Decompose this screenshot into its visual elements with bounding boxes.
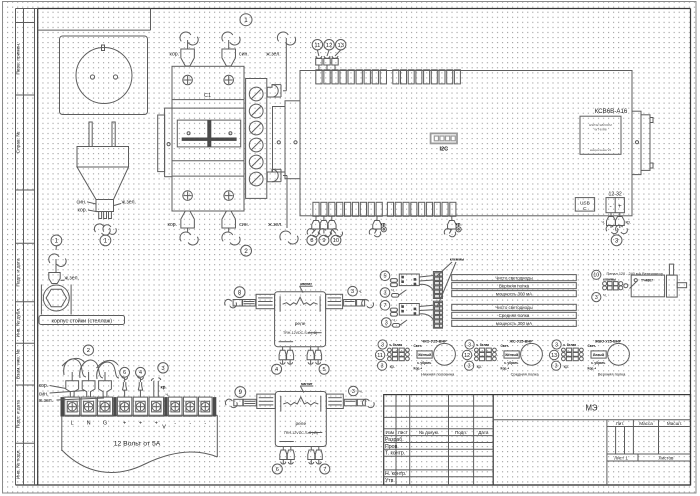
mains plugs into L N G	[66, 381, 79, 397]
svg-text:5: 5	[323, 367, 326, 373]
svg-text:12 Вольт от 5А: 12 Вольт от 5А	[114, 441, 161, 448]
block to column wires lower	[419, 305, 433, 306]
svg-text:Средняя полка: Средняя полка	[499, 313, 530, 318]
svg-text:реле: реле	[295, 422, 306, 427]
svg-text:Пров.: Пров.	[385, 444, 399, 450]
node 8	[234, 287, 245, 298]
node 3 lamp bottom	[552, 361, 561, 370]
node 10	[592, 270, 601, 279]
svg-text:ТЧ4807: ТЧ4807	[641, 278, 653, 282]
node 3 upper strip	[380, 288, 390, 298]
svg-text:6: 6	[276, 467, 279, 473]
relay TRH-12VDC body	[275, 292, 326, 347]
svg-text:3: 3	[615, 238, 619, 245]
bottom pin header group 2	[387, 202, 393, 216]
C1 strip screw 2	[249, 104, 263, 118]
svg-text:3: 3	[352, 389, 355, 395]
svg-text:ч.: ч.	[603, 292, 606, 297]
svg-text:USB: USB	[580, 200, 590, 206]
rack plug	[49, 273, 60, 284]
node 3 lamp top	[552, 340, 561, 349]
node 3 psu	[158, 363, 168, 373]
power wires to node 3	[610, 213, 612, 217]
svg-text:ч.: ч.	[359, 289, 363, 294]
svg-text:№ докум.: № докум.	[419, 430, 439, 435]
node 6 psu	[120, 367, 130, 377]
node 3	[349, 386, 359, 396]
C1 strip screw 4	[249, 138, 263, 152]
red pin wire 1	[376, 216, 378, 220]
svg-text:Жёлтый: Жёлтый	[504, 353, 518, 357]
node 5	[319, 364, 329, 374]
svg-text:ЧКО-У25-ВНР: ЧКО-У25-ВНР	[422, 340, 448, 344]
svg-text:3: 3	[161, 366, 164, 372]
C1 bottom plug син.	[222, 211, 236, 228]
C1 screw bottom-left	[183, 191, 193, 201]
node 4 psu	[136, 367, 146, 377]
svg-text:ч. белая: ч. белая	[563, 343, 576, 347]
board left bracket	[285, 101, 300, 179]
svg-text:4: 4	[275, 367, 278, 373]
top-left reference box	[38, 29, 151, 31]
wall socket	[60, 36, 148, 115]
svg-text:1: 1	[55, 238, 59, 245]
LED bar 2	[452, 312, 577, 318]
svg-text:10: 10	[593, 273, 599, 279]
fan motor	[667, 275, 678, 297]
C1 strip screw 1	[249, 87, 263, 101]
svg-text:Подп. и дата: Подп. и дата	[15, 258, 21, 287]
svg-text:кор.: кор.	[168, 222, 178, 228]
svg-text:11: 11	[314, 43, 320, 49]
power plug prong right	[112, 122, 115, 147]
C1 inner window	[177, 120, 240, 147]
controller board KCB6B-A16	[300, 71, 632, 216]
fan connector chain	[603, 282, 607, 286]
svg-text:9: 9	[322, 238, 325, 244]
relay right connector	[326, 394, 343, 408]
wires 8 9 10 from board	[315, 216, 317, 220]
wire ж.зел. up	[283, 90, 286, 92]
svg-text:кр.: кр.	[390, 364, 396, 369]
C1 strip screw 5	[249, 155, 263, 169]
svg-text:МЭ: МЭ	[585, 404, 597, 413]
wire node 6 to +	[124, 390, 126, 397]
relay left connector	[257, 394, 276, 408]
node 11	[312, 40, 322, 50]
svg-text:11: 11	[377, 353, 383, 359]
svg-text:ж.зел.: ж.зел.	[268, 222, 282, 228]
svg-text:C1: C1	[204, 93, 211, 99]
node 3 power	[611, 235, 622, 246]
cord squiggle	[94, 224, 103, 232]
node 12	[462, 350, 471, 359]
svg-text:ч.: ч.	[359, 389, 363, 394]
C1 screw top-left	[183, 75, 193, 85]
svg-text:-: -	[204, 421, 206, 427]
svg-text:-: -	[610, 203, 612, 210]
svg-text:4: 4	[139, 370, 142, 376]
svg-text:Чисто светодиоды: Чисто светодиоды	[495, 305, 532, 310]
svg-text:+: +	[618, 203, 622, 210]
svg-text:син.: син.	[77, 199, 87, 205]
svg-text:13: 13	[551, 353, 557, 359]
node 6	[272, 464, 282, 474]
svg-text:G: G	[103, 421, 107, 427]
svg-text:микросхема V2: микросхема V2	[590, 148, 612, 152]
terminal strip	[61, 397, 65, 416]
relay coil	[279, 296, 281, 312]
svg-text:син.: син.	[239, 222, 249, 228]
svg-text:3: 3	[385, 320, 388, 326]
node 9	[319, 235, 329, 245]
I2C connector	[431, 133, 457, 143]
svg-text:Кор.+: Кор.+	[501, 366, 510, 370]
lamp driver	[417, 351, 432, 358]
D-plug top of strip	[267, 85, 278, 97]
lamp bulb	[434, 343, 456, 365]
LED bar 2	[452, 283, 577, 289]
C1 top plug кор.	[181, 49, 195, 66]
relay bottom pins	[282, 347, 284, 351]
relay TRH-12VDC body	[275, 392, 326, 447]
svg-text:з. убрать: з. убрать	[417, 361, 431, 365]
svg-text:3: 3	[468, 364, 471, 370]
svg-text:клеммы: клеммы	[450, 257, 464, 261]
svg-text:L: L	[71, 421, 74, 427]
svg-text:кр.: кр.	[381, 221, 387, 226]
node 1 below plug	[100, 235, 111, 246]
svg-text:кр.: кр.	[564, 364, 570, 369]
svg-text:Изм: Изм	[386, 430, 395, 435]
svg-text:ч. белая: ч. белая	[476, 343, 489, 347]
C1 screw bottom-right	[224, 191, 234, 201]
svg-text:кор.: кор.	[78, 208, 88, 214]
svg-text:Свет-: Свет-	[501, 344, 510, 348]
red pin wire 2	[451, 216, 453, 220]
socket hole right	[113, 75, 117, 79]
svg-text:Кор.+: Кор.+	[588, 366, 597, 370]
svg-text:магнит: магнит	[301, 382, 313, 386]
svg-text:Белый: Белый	[593, 353, 604, 357]
svg-text:кр.: кр.	[161, 385, 167, 390]
C1 top plug син.	[222, 49, 236, 66]
relay left connector	[256, 294, 275, 308]
USB C port	[575, 198, 594, 212]
C1 terminal strip	[246, 79, 267, 199]
C1 strip screw 3	[249, 121, 263, 135]
svg-text:Свет-: Свет-	[414, 344, 423, 348]
svg-text:-: -	[174, 421, 176, 427]
svg-text:12-32: 12-32	[609, 191, 622, 197]
contactor C1 body	[172, 66, 244, 211]
svg-text:Подп. и дата: Подп. и дата	[15, 400, 21, 429]
LED strip connector column	[433, 301, 442, 328]
svg-text:з. убрать: з. убрать	[591, 361, 605, 365]
node 12	[324, 40, 334, 50]
LED bar 1	[452, 304, 577, 310]
connector block	[399, 304, 419, 316]
node 8	[307, 235, 317, 245]
svg-text:син.: син.	[39, 391, 49, 397]
relay coil	[280, 396, 282, 412]
svg-text:мощность 300 мА: мощность 300 мА	[496, 321, 532, 326]
node 3 lamp top	[465, 340, 474, 349]
node 10	[331, 235, 341, 245]
node 2 psu	[83, 345, 93, 355]
svg-text:КСВ6В-А16: КСВ6В-А16	[595, 108, 628, 115]
svg-text:син.: син.	[239, 52, 249, 58]
svg-text:реле: реле	[295, 322, 306, 327]
svg-text:магнит: магнит	[300, 282, 312, 286]
LED bar 3	[452, 320, 577, 326]
C1 screw top-right	[224, 75, 234, 85]
lamp connector grid	[475, 348, 479, 352]
title block	[384, 395, 691, 485]
svg-text:кор.: кор.	[39, 383, 49, 389]
LED bar 3	[452, 291, 577, 297]
top pin header group 2	[393, 70, 399, 84]
svg-text:ж.зел.: ж.зел.	[122, 199, 136, 205]
node 9	[235, 387, 246, 398]
node 7	[380, 301, 390, 311]
svg-text:мощность 300 мА: мощность 300 мА	[496, 291, 532, 296]
svg-text:3: 3	[381, 364, 384, 370]
svg-text:Верхняя полка: Верхняя полка	[598, 372, 626, 377]
lamp bulb	[608, 343, 630, 365]
ESP32 module	[580, 116, 621, 154]
svg-text:ч.: ч.	[393, 317, 396, 322]
bottom pin header group 1	[313, 202, 319, 216]
svg-text:ч. белая: ч. белая	[389, 343, 402, 347]
svg-text:Разраб.: Разраб.	[385, 437, 404, 443]
board right bracket	[632, 111, 641, 174]
svg-text:клеммы: клеммы	[603, 278, 616, 282]
fan driver box	[631, 275, 664, 297]
svg-text:Инв. № дубл.: Инв. № дубл.	[15, 308, 21, 338]
wires node 3 to +	[157, 381, 159, 397]
node 3 lower strip	[382, 318, 392, 328]
bolt side lines	[40, 285, 42, 315]
node 1 top	[240, 14, 252, 26]
svg-text:Инв. № подл.: Инв. № подл.	[15, 449, 21, 479]
connector block	[399, 274, 419, 286]
svg-text:Лит.: Лит.	[616, 421, 625, 426]
svg-text:3: 3	[384, 290, 387, 296]
svg-text:+: +	[155, 421, 158, 427]
node 13	[336, 40, 346, 50]
svg-text:Средняя полка: Средняя полка	[511, 372, 540, 377]
lamp connector grid	[388, 348, 392, 352]
svg-text:Жёлтый: Жёлтый	[417, 353, 431, 357]
svg-text:Масшт.: Масшт.	[667, 421, 682, 426]
C1 left tab	[165, 108, 172, 177]
svg-text:Нижняя половина: Нижняя половина	[421, 372, 455, 377]
svg-text:7: 7	[384, 303, 387, 309]
svg-text:I2C: I2C	[439, 147, 448, 153]
PSU box	[62, 414, 218, 416]
svg-text:13: 13	[337, 43, 343, 49]
svg-text:Т. контр.: Т. контр.	[385, 451, 405, 457]
svg-text:3: 3	[468, 342, 471, 348]
node 11	[375, 350, 384, 359]
top pin header group 1	[316, 70, 322, 84]
svg-text:Утв.: Утв.	[385, 478, 395, 484]
svg-text:корпус стойки (стеллаж): корпус стойки (стеллаж)	[52, 318, 113, 325]
lamp driver	[591, 351, 606, 358]
node 3	[348, 286, 358, 296]
svg-text:ЖВО-У25-ВНР: ЖВО-У25-ВНР	[594, 340, 622, 344]
svg-text:кор.: кор.	[170, 52, 180, 58]
svg-text:Верхняя полка: Верхняя полка	[499, 283, 530, 288]
svg-text:ч.: ч.	[602, 219, 606, 224]
svg-text:7: 7	[323, 467, 326, 473]
svg-text:Справ. №: Справ. №	[15, 132, 21, 154]
svg-text:кр.: кр.	[456, 221, 462, 226]
svg-text:+: +	[139, 421, 142, 427]
svg-text:8: 8	[310, 238, 313, 244]
pigtails	[390, 279, 397, 283]
C1 cross bar	[182, 138, 237, 141]
svg-text:ж.зел.: ж.зел.	[266, 52, 280, 58]
svg-text:Листов: Листов	[659, 456, 674, 461]
socket ground notch	[102, 45, 105, 51]
C1 bottom plug кор.	[181, 211, 195, 228]
node 1 above rack	[51, 235, 62, 246]
svg-text:V: V	[162, 424, 166, 430]
svg-text:N: N	[87, 421, 91, 427]
svg-text:ч.: ч.	[392, 287, 395, 292]
svg-text:5: 5	[384, 274, 387, 280]
relay right connector	[326, 294, 343, 308]
lamp bulb	[521, 343, 543, 365]
node 3 lamp top	[378, 340, 387, 349]
C1 strip screw 6	[249, 172, 263, 186]
socket hole left	[90, 75, 94, 79]
power plug cord pins	[99, 212, 102, 219]
svg-text:1: 1	[244, 17, 248, 24]
svg-text:ж.зел.: ж.зел.	[65, 275, 79, 281]
svg-text:3: 3	[555, 364, 558, 370]
node 13	[549, 350, 558, 359]
svg-text:12: 12	[326, 43, 332, 49]
svg-text:3: 3	[595, 295, 598, 301]
power plug body	[77, 147, 129, 168]
node 3 lamp bottom	[465, 361, 474, 370]
lamp connector grid	[562, 348, 566, 352]
block to column wires upper	[419, 276, 433, 278]
pigtails	[390, 308, 397, 312]
wire to rack body	[49, 254, 59, 263]
svg-text:2: 2	[244, 248, 248, 255]
LED strip connector column	[433, 272, 442, 299]
node 3 lamp bottom	[378, 361, 387, 370]
svg-text:Кор.+: Кор.+	[414, 366, 423, 370]
svg-text:3: 3	[381, 342, 384, 348]
node 2	[241, 245, 252, 256]
svg-text:Подп.: Подп.	[455, 430, 467, 435]
node 7	[320, 464, 330, 474]
LED bar 1	[452, 275, 577, 281]
power plug shell	[77, 167, 129, 200]
svg-text:Перв. примен.: Перв. примен.	[15, 43, 21, 75]
svg-text:ЖС-У25-ВНР: ЖС-У25-ВНР	[508, 340, 533, 344]
svg-text:3: 3	[351, 289, 354, 295]
D-plug bottom of strip	[267, 169, 278, 181]
svg-text:кр.: кр.	[477, 364, 483, 369]
C1 window dots	[187, 132, 190, 135]
svg-text:Свет-: Свет-	[588, 344, 597, 348]
svg-text:6: 6	[123, 370, 126, 376]
svg-text:ж.зел.: ж.зел.	[39, 398, 53, 404]
relay bottom pins	[282, 447, 284, 451]
svg-text:Взам. инв. №: Взам. инв. №	[15, 349, 21, 379]
wire node 4 to +	[139, 390, 141, 397]
svg-text:3: 3	[555, 342, 558, 348]
svg-text:з. убрать: з. убрать	[504, 361, 518, 365]
svg-text:кр.: кр.	[626, 219, 632, 224]
rack label box	[39, 316, 125, 325]
svg-text:Лист 1: Лист 1	[614, 456, 628, 461]
node 4	[272, 364, 282, 374]
svg-text:Дата: Дата	[478, 430, 489, 435]
node 5	[380, 271, 390, 281]
hex bolt	[43, 285, 69, 311]
svg-text:+: +	[123, 421, 126, 427]
svg-text:10: 10	[333, 238, 339, 244]
svg-text:ч.: ч.	[166, 392, 170, 397]
power plug prong left	[89, 122, 92, 147]
svg-text:Н. контр.: Н. контр.	[385, 471, 406, 477]
svg-text:12: 12	[464, 353, 470, 359]
svg-text:Лист: Лист	[398, 430, 409, 435]
svg-text:1: 1	[104, 238, 108, 245]
svg-text:2: 2	[87, 348, 90, 354]
wire ж.зел. down	[283, 175, 287, 177]
svg-text:Масса: Масса	[639, 421, 653, 426]
PSU break wave	[62, 450, 218, 472]
mains wire waves	[64, 359, 86, 377]
lamp driver	[504, 351, 519, 358]
svg-text:-: -	[189, 421, 191, 427]
svg-text:C: C	[583, 206, 587, 212]
node 3 fan	[592, 293, 601, 302]
svg-text:ESP32-WROOM: ESP32-WROOM	[589, 123, 612, 127]
svg-text:Чисто светодиоды: Чисто светодиоды	[495, 275, 532, 280]
svg-text:WT-8 M8: WT-8 M8	[594, 128, 606, 132]
